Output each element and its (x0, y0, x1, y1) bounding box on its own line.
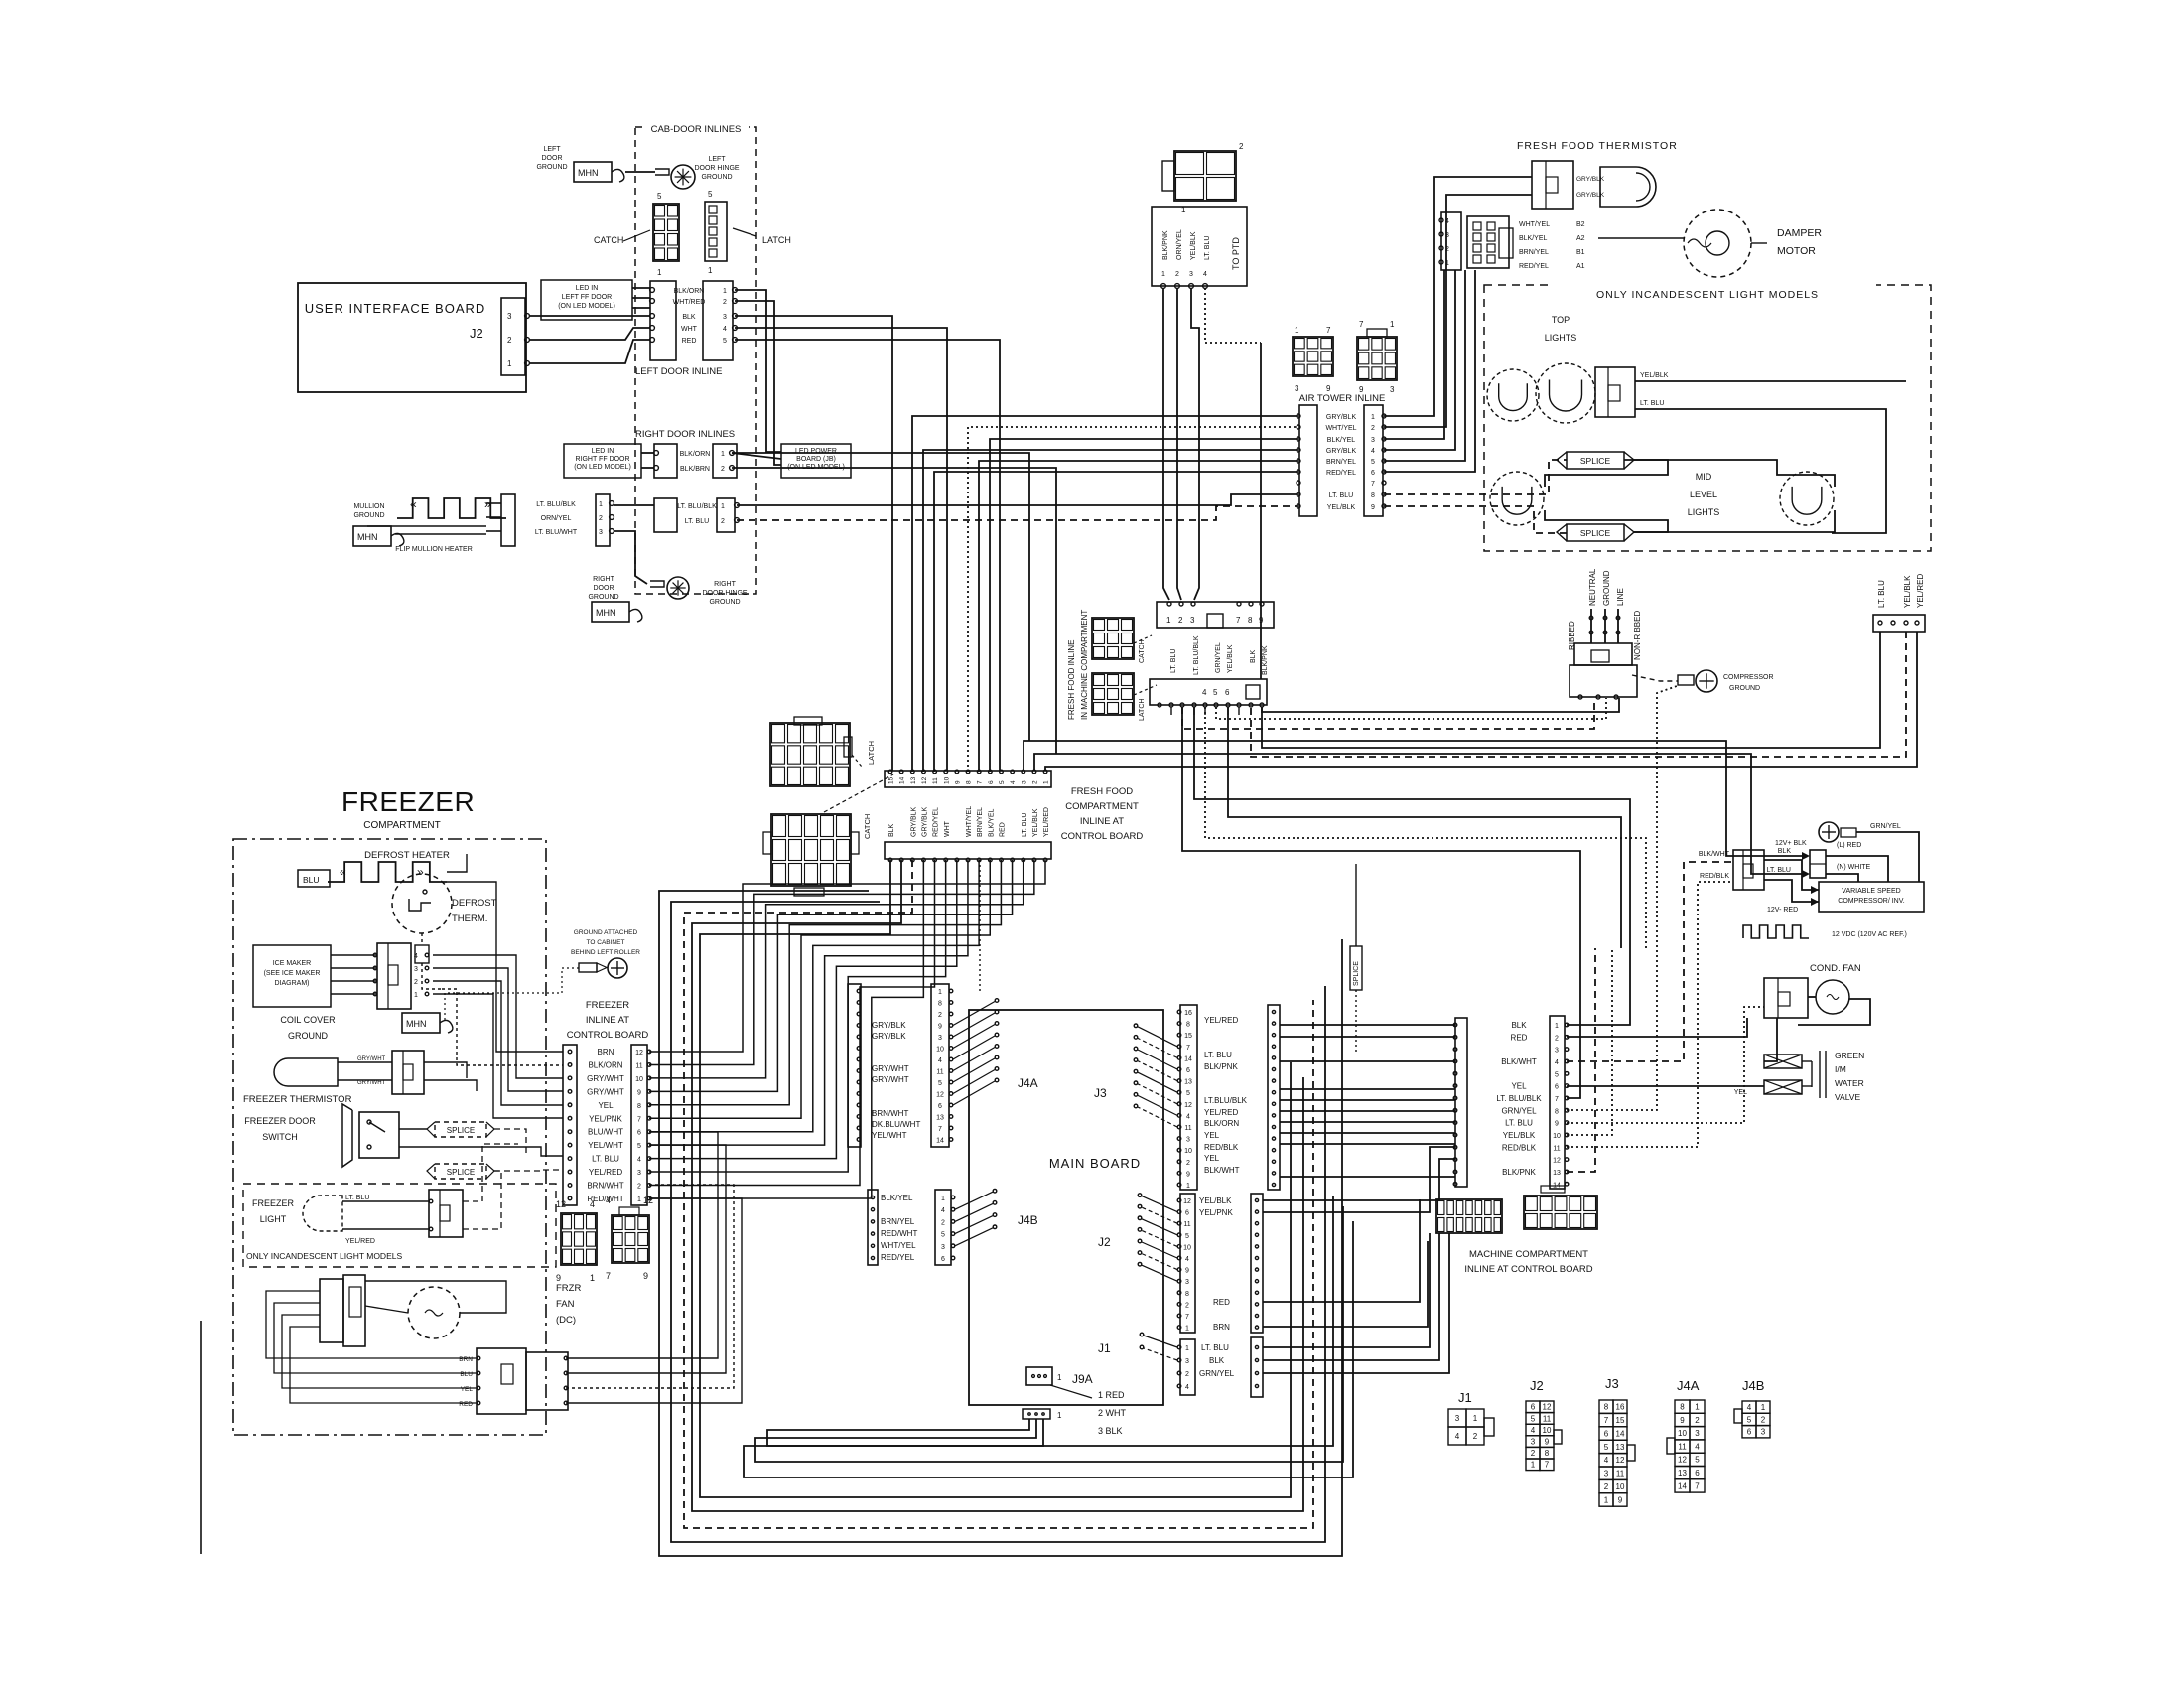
svg-text:12V+ BLK: 12V+ BLK (1775, 840, 1807, 847)
svg-text:LT. BLU: LT. BLU (345, 1195, 369, 1201)
svg-text:YEL/RED: YEL/RED (589, 1168, 622, 1177)
svg-text:VARIABLE SPEED: VARIABLE SPEED (1842, 888, 1900, 895)
connector J1 bar (1180, 1339, 1195, 1395)
svg-text:J4B: J4B (1018, 1213, 1038, 1227)
svg-text:3: 3 (1531, 1437, 1536, 1446)
wire blk to ptc (1024, 741, 1802, 856)
svg-text:9: 9 (1186, 1171, 1190, 1178)
air tower inline right bar (1364, 405, 1383, 516)
svg-text:4: 4 (637, 1157, 641, 1164)
only incandescent light models box (1484, 285, 1931, 551)
svg-text:2: 2 (1185, 1371, 1189, 1378)
svg-text:5: 5 (1555, 1071, 1559, 1078)
svg-text:2: 2 (1178, 616, 1183, 625)
svg-text:WHT/YEL: WHT/YEL (1325, 425, 1356, 432)
svg-text:12: 12 (1553, 1158, 1561, 1165)
svg-text:LEFT: LEFT (543, 146, 561, 153)
svg-text:SPLICE: SPLICE (447, 1168, 475, 1177)
svg-text:YEL: YEL (461, 1386, 474, 1393)
splice 2 freezer (435, 1164, 486, 1179)
svg-text:RED/BLK: RED/BLK (1700, 873, 1729, 880)
svg-text:7: 7 (637, 1116, 641, 1123)
svg-text:12: 12 (1616, 1456, 1625, 1465)
svg-text:LT. BLU/BLK: LT. BLU/BLK (1193, 635, 1200, 675)
svg-text:INLINE AT CONTROL BOARD: INLINE AT CONTROL BOARD (1464, 1264, 1592, 1275)
svg-text:RED: RED (1511, 1033, 1528, 1042)
svg-text:13: 13 (1616, 1443, 1625, 1452)
svg-text:9: 9 (1545, 1437, 1550, 1446)
svg-text:YEL/RED: YEL/RED (345, 1238, 375, 1245)
svg-text:YEL: YEL (1734, 1089, 1747, 1096)
svg-text:3: 3 (507, 312, 512, 321)
svg-text:BRN/YEL: BRN/YEL (881, 1217, 915, 1226)
svg-text:YEL/RED: YEL/RED (1043, 807, 1050, 837)
svg-text:8: 8 (1186, 1022, 1190, 1029)
svg-text:5: 5 (1186, 1090, 1190, 1097)
svg-text:7: 7 (1555, 1096, 1559, 1103)
svg-text:BLK/PNK: BLK/PNK (1502, 1168, 1536, 1177)
svg-text:J3: J3 (1605, 1376, 1619, 1391)
grn/yel ground screw (1819, 822, 1839, 842)
svg-text:12: 12 (936, 1092, 944, 1099)
machine compartment pin bar (1550, 1016, 1565, 1189)
svg-text:RED/YEL: RED/YEL (1326, 470, 1356, 477)
svg-text:ORN/YEL: ORN/YEL (1176, 229, 1183, 260)
J9A pigtail note (1050, 1385, 1092, 1398)
svg-text:14: 14 (1678, 1481, 1687, 1490)
svg-text:WHT/YEL: WHT/YEL (966, 806, 973, 837)
wire machine row13 dashed stub (1567, 948, 1595, 1172)
svg-text:MHN: MHN (596, 608, 616, 618)
top lights bulb 1 (1487, 369, 1539, 421)
svg-text:7: 7 (977, 780, 984, 784)
defrost thermostat (392, 874, 452, 933)
freezer compartment box (233, 839, 546, 1435)
connector to ptd 2x2 (1174, 151, 1236, 201)
svg-text:BLK/YEL: BLK/YEL (1327, 437, 1356, 444)
svg-text:FREEZER: FREEZER (252, 1198, 295, 1208)
svg-text:1 RED: 1 RED (1098, 1390, 1125, 1400)
svg-text:RED/BLK: RED/BLK (1204, 1143, 1239, 1152)
svg-text:NEUTRAL: NEUTRAL (1588, 568, 1597, 606)
svg-text:BRN/YEL: BRN/YEL (977, 807, 984, 837)
wires J2 to machine inline (1263, 1159, 1455, 1200)
nested wires D (659, 891, 1342, 1556)
svg-text:J2: J2 (1098, 1235, 1111, 1249)
right door inline connector (654, 444, 677, 478)
svg-text:GRN/YEL: GRN/YEL (1501, 1106, 1537, 1115)
svg-text:11: 11 (1543, 1414, 1552, 1423)
svg-text:LIGHTS: LIGHTS (1688, 507, 1720, 517)
ff inline at control board grid latch (770, 723, 850, 786)
machine compartment grid connector B (1524, 1196, 1597, 1229)
svg-text:BRN/WHT: BRN/WHT (587, 1182, 623, 1191)
svg-text:4: 4 (590, 1199, 595, 1209)
svg-text:GROUND: GROUND (701, 174, 732, 181)
svg-text:FRESH FOOD THERMISTOR: FRESH FOOD THERMISTOR (1517, 140, 1678, 152)
svg-text:CONTROL BOARD: CONTROL BOARD (1061, 831, 1144, 842)
svg-text:BLK/ORN: BLK/ORN (680, 451, 711, 458)
svg-text:10: 10 (1184, 1148, 1192, 1155)
svg-text:11: 11 (936, 1069, 943, 1076)
svg-text:WHT: WHT (944, 820, 951, 837)
svg-text:10: 10 (1616, 1482, 1625, 1491)
svg-text:LT.BLU/BLK: LT.BLU/BLK (1204, 1096, 1248, 1105)
svg-text:5: 5 (1604, 1443, 1609, 1452)
svg-text:DK.BLU/WHT: DK.BLU/WHT (872, 1120, 920, 1129)
svg-text:3: 3 (1186, 1137, 1190, 1144)
svg-text:1: 1 (590, 1273, 595, 1283)
wire air tower pin9 dashed to splice (1384, 506, 1567, 533)
svg-text:3: 3 (1021, 780, 1027, 784)
water valve coils (1764, 1055, 1802, 1068)
svg-text:(ON LED MODEL): (ON LED MODEL) (574, 464, 631, 471)
svg-text:7: 7 (1371, 481, 1375, 488)
svg-text:8: 8 (1545, 1449, 1550, 1458)
svg-text:MHN: MHN (357, 532, 378, 542)
svg-text:6: 6 (1185, 1210, 1189, 1217)
svg-text:INLINE AT: INLINE AT (1080, 816, 1124, 827)
svg-text:BRN/YEL: BRN/YEL (1519, 249, 1549, 256)
svg-text:INLINE AT: INLINE AT (586, 1015, 629, 1026)
svg-text:BLK/BRN: BLK/BRN (680, 466, 710, 473)
svg-text:FRESH FOOD: FRESH FOOD (1071, 786, 1133, 797)
svg-text:»: » (484, 497, 491, 511)
svg-text:6: 6 (938, 1103, 942, 1110)
svg-text:SPLICE: SPLICE (1353, 961, 1360, 986)
led in right ff door box (564, 444, 641, 478)
svg-text:COND. FAN: COND. FAN (1810, 963, 1861, 974)
svg-text:6: 6 (1695, 1469, 1700, 1477)
svg-text:1: 1 (414, 992, 418, 999)
svg-text:6: 6 (1225, 688, 1230, 697)
svg-text:1: 1 (657, 268, 662, 277)
svg-text:BLU: BLU (460, 1371, 473, 1378)
svg-text:MULLION: MULLION (353, 503, 384, 510)
svg-text:4: 4 (414, 953, 418, 960)
svg-text:RIGHT: RIGHT (593, 576, 615, 583)
svg-text:J3: J3 (1094, 1086, 1107, 1100)
svg-text:1: 1 (1473, 1414, 1478, 1423)
svg-text:12: 12 (1184, 1102, 1192, 1109)
svg-text:IN MACHINE COMPARTMENT: IN MACHINE COMPARTMENT (1080, 610, 1089, 720)
wire machine row2 to cond fan connector (1567, 1018, 1747, 1037)
svg-text:LED POWER: LED POWER (795, 448, 837, 455)
svg-text:9: 9 (1185, 1268, 1189, 1275)
nested wires C dashed (684, 860, 1313, 1528)
splice vertical (1350, 946, 1362, 990)
svg-text:4: 4 (1455, 1432, 1460, 1441)
svg-text:YEL/RED: YEL/RED (1204, 1108, 1238, 1117)
svg-text:THERM.: THERM. (452, 914, 487, 924)
svg-text:9: 9 (637, 1089, 641, 1096)
svg-text:2: 2 (941, 1219, 945, 1226)
svg-text:1: 1 (1761, 1403, 1766, 1412)
machine compartment grid connector A (1436, 1199, 1502, 1233)
svg-text:J4A: J4A (1677, 1378, 1700, 1393)
svg-text:BLK/WHT: BLK/WHT (1204, 1166, 1240, 1175)
J3 right bar (1268, 1005, 1280, 1190)
svg-text:YEL/BLK: YEL/BLK (1640, 372, 1669, 379)
wire lt.blu/blk long to air tower (737, 494, 1298, 505)
svg-text:RED: RED (1000, 822, 1007, 837)
freezer thermistor connector (392, 1051, 424, 1094)
damper motor pin bar (1441, 212, 1461, 270)
svg-text:YEL/BLK: YEL/BLK (1327, 504, 1356, 511)
svg-text:3: 3 (941, 1244, 945, 1251)
svg-text:COIL COVER: COIL COVER (280, 1015, 336, 1025)
freezer inline left bar (563, 1045, 577, 1205)
svg-text:GROUND: GROUND (1729, 685, 1760, 692)
svg-text:LT. BLU: LT. BLU (1767, 867, 1791, 874)
svg-text:4: 4 (1555, 1059, 1559, 1066)
svg-text:YEL/BLK: YEL/BLK (1199, 1196, 1232, 1205)
svg-text:2 WHT: 2 WHT (1098, 1408, 1127, 1418)
J2 right bar (1251, 1194, 1263, 1333)
wire air tower pin8 dashed to splice (1384, 460, 1567, 494)
svg-text:J4A: J4A (1018, 1076, 1038, 1090)
svg-text:4: 4 (1695, 1442, 1700, 1451)
svg-text:FREEZER THERMISTOR: FREEZER THERMISTOR (243, 1094, 352, 1105)
wire right door inline verticals (732, 453, 1029, 741)
svg-text:7: 7 (1545, 1461, 1550, 1470)
mullion heater terminal box (501, 494, 515, 546)
svg-text:14: 14 (1184, 1055, 1192, 1062)
svg-text:LEVEL: LEVEL (1690, 490, 1717, 499)
wire right door inline pins to led power board (732, 453, 781, 459)
svg-text:11: 11 (1183, 1221, 1190, 1228)
svg-text:DAMPER: DAMPER (1777, 227, 1822, 239)
svg-text:2: 2 (1175, 271, 1179, 278)
svg-text:I/M: I/M (1835, 1064, 1846, 1074)
svg-text:BRN/WHT: BRN/WHT (872, 1109, 908, 1118)
svg-text:5: 5 (1213, 688, 1218, 697)
svg-text:BLK/YEL: BLK/YEL (1519, 235, 1548, 242)
svg-text:DOOR: DOOR (594, 585, 614, 592)
svg-text:16: 16 (1616, 1403, 1625, 1412)
wire machine row9 dotted to cond fan (1567, 1007, 1764, 1123)
svg-text:7: 7 (1359, 320, 1364, 329)
nested wires ff inline to bottom and right A (700, 860, 1291, 1497)
svg-text:9: 9 (1680, 1416, 1685, 1425)
svg-text:RED: RED (1213, 1298, 1230, 1307)
svg-text:12: 12 (921, 776, 928, 784)
svg-text:1: 1 (708, 266, 713, 275)
svg-text:FREEZER: FREEZER (586, 1000, 629, 1011)
svg-text:ONLY INCANDESCENT LIGHT MODELS: ONLY INCANDESCENT LIGHT MODELS (1596, 289, 1819, 301)
svg-text:GROUND ATTACHED: GROUND ATTACHED (574, 929, 638, 936)
svg-text:5: 5 (708, 190, 713, 199)
svg-text:4: 4 (1185, 1256, 1189, 1263)
wire ff inline pin5 dotted loop (1205, 707, 1646, 948)
svg-text:6: 6 (1604, 1429, 1609, 1438)
svg-text:1: 1 (941, 1196, 945, 1202)
ff inline at control board grid catch (771, 814, 851, 886)
svg-text:LT. BLU: LT. BLU (1505, 1119, 1533, 1128)
svg-text:YEL/BLK: YEL/BLK (1032, 808, 1039, 837)
svg-text:GRY/BLK: GRY/BLK (1326, 414, 1357, 421)
cond fan connector (1764, 978, 1808, 1018)
svg-text:COMPARTMENT: COMPARTMENT (1065, 801, 1139, 812)
svg-text:1: 1 (721, 503, 725, 510)
svg-text:DIAGRAM): DIAGRAM) (275, 980, 310, 987)
svg-text:1: 1 (1445, 260, 1449, 267)
svg-text:3: 3 (1445, 232, 1449, 239)
svg-text:5: 5 (999, 780, 1006, 784)
svg-text:5: 5 (637, 1143, 641, 1150)
svg-text:3: 3 (1604, 1470, 1609, 1478)
svg-text:15: 15 (888, 776, 895, 784)
svg-text:1: 1 (599, 501, 603, 508)
svg-text:3: 3 (1185, 1358, 1189, 1365)
svg-text:MAIN BOARD: MAIN BOARD (1049, 1156, 1141, 1171)
svg-text:12: 12 (556, 1199, 566, 1209)
svg-text:1: 1 (1186, 1183, 1190, 1190)
svg-text:5: 5 (941, 1232, 945, 1239)
svg-text:BRN: BRN (459, 1356, 473, 1363)
svg-text:»: » (417, 865, 424, 879)
svg-text:2: 2 (1531, 1449, 1536, 1458)
wire to ptd pin1 down to ff inline (1163, 288, 1169, 600)
svg-text:6: 6 (1747, 1428, 1752, 1437)
wire left door pin4 long to ff inline (735, 328, 947, 771)
svg-text:4: 4 (1445, 218, 1449, 225)
connector J4B bar (935, 1190, 951, 1265)
svg-text:BEHIND LEFT ROLLER: BEHIND LEFT ROLLER (571, 949, 640, 956)
svg-text:DEFROST HEATER: DEFROST HEATER (364, 850, 450, 861)
svg-text:11: 11 (1678, 1442, 1687, 1451)
svg-text:RED/BLK: RED/BLK (1502, 1143, 1537, 1152)
svg-text:6: 6 (988, 780, 995, 784)
svg-text:LED IN: LED IN (592, 448, 614, 455)
svg-text:15: 15 (1184, 1033, 1192, 1040)
svg-text:4: 4 (1186, 1113, 1190, 1120)
svg-text:2: 2 (938, 1012, 942, 1019)
wire to ptd pin4 dotted down (1205, 288, 1261, 343)
svg-text:BLK/YEL: BLK/YEL (881, 1194, 913, 1202)
svg-text:MID: MID (1696, 472, 1712, 482)
connector J9A (1026, 1367, 1052, 1385)
svg-text:LT. BLU: LT. BLU (1170, 649, 1177, 673)
svg-text:YEL: YEL (598, 1101, 614, 1110)
svg-text:2: 2 (721, 466, 725, 473)
wire lt.blu drop (1262, 632, 1880, 748)
svg-text:YEL/RED: YEL/RED (1916, 574, 1925, 608)
power cord wires into block (1590, 609, 1592, 643)
J4B left bar (868, 1190, 878, 1265)
svg-text:YEL/BLK: YEL/BLK (1503, 1131, 1536, 1140)
svg-text:VALVE: VALVE (1835, 1092, 1860, 1102)
svg-text:6: 6 (1531, 1403, 1536, 1412)
svg-text:4: 4 (938, 1057, 942, 1064)
svg-text:J1: J1 (1458, 1390, 1472, 1405)
svg-text:7: 7 (606, 1271, 611, 1281)
wire ff inline pin4 loop (1228, 707, 1621, 948)
svg-text:GRY/BLK: GRY/BLK (1326, 448, 1357, 455)
svg-text:RED/YEL: RED/YEL (933, 807, 940, 837)
freezer inline pin bar (631, 1045, 647, 1205)
svg-text:5: 5 (1695, 1456, 1700, 1465)
svg-text:GRY/BLK: GRY/BLK (872, 1021, 906, 1030)
svg-text:12: 12 (1543, 1403, 1552, 1412)
svg-text:9: 9 (1555, 1121, 1559, 1128)
svg-text:LATCH: LATCH (762, 235, 791, 245)
connector below board (1023, 1409, 1050, 1419)
freezer inline grid connector B (612, 1215, 649, 1263)
ff machine compartment inline bottom bar (1150, 679, 1267, 705)
left door inline connector (650, 281, 676, 360)
svg-text:B2: B2 (1576, 221, 1585, 228)
svg-text:GROUND: GROUND (288, 1031, 328, 1041)
svg-text:ONLY INCANDESCENT LIGHT MODELS: ONLY INCANDESCENT LIGHT MODELS (246, 1251, 402, 1261)
cabinet ground screw (579, 963, 597, 972)
svg-text:10: 10 (943, 776, 950, 784)
svg-text:10: 10 (635, 1076, 643, 1083)
svg-text:DEFROST: DEFROST (452, 898, 497, 909)
wire mullion pin3 to right door ground (614, 531, 647, 584)
svg-text:BLK: BLK (1511, 1021, 1527, 1030)
svg-text:7: 7 (1185, 1314, 1189, 1321)
wire left door pin5 long to ff inline (735, 340, 1000, 771)
svg-text:12: 12 (1678, 1456, 1687, 1465)
svg-text:BLK/PNK: BLK/PNK (1162, 230, 1169, 260)
svg-text:9: 9 (1371, 504, 1375, 511)
svg-text:5: 5 (723, 338, 727, 345)
machine compartment inline left bar (1455, 1018, 1467, 1187)
svg-text:YEL/BLK: YEL/BLK (1190, 231, 1197, 260)
svg-text:LEFT DOOR INLINE: LEFT DOOR INLINE (635, 366, 722, 377)
compressor ground lug (1632, 675, 1678, 681)
latch connector (705, 202, 727, 261)
svg-text:BLU: BLU (303, 875, 320, 885)
svg-text:BLK/ORN: BLK/ORN (588, 1060, 622, 1069)
wire grn/yel to compressor (1856, 832, 1919, 882)
svg-text:RED/WHT: RED/WHT (881, 1229, 917, 1238)
svg-text:7: 7 (1326, 326, 1331, 335)
svg-text:4: 4 (1185, 1384, 1189, 1391)
svg-text:11: 11 (1184, 1125, 1191, 1132)
svg-text:1: 1 (1555, 1023, 1559, 1030)
freezer light wiring dashed (463, 1144, 518, 1201)
top lights connector (1595, 367, 1635, 417)
right door hinge ground lug (650, 581, 664, 587)
wire left door pin3 long to ff inline (735, 316, 892, 771)
svg-text:2: 2 (1185, 1302, 1189, 1309)
svg-text:8: 8 (966, 780, 973, 784)
svg-text:13: 13 (1553, 1170, 1561, 1177)
svg-text:5: 5 (1371, 459, 1375, 466)
svg-text:J2: J2 (1530, 1378, 1544, 1393)
svg-text:6: 6 (941, 1256, 945, 1263)
led power board box (781, 444, 851, 478)
svg-text:LATCH: LATCH (867, 741, 876, 765)
svg-text:SPLICE: SPLICE (1580, 528, 1611, 538)
svg-text:2: 2 (1371, 425, 1375, 432)
svg-text:5: 5 (1531, 1414, 1536, 1423)
svg-text:GREEN: GREEN (1835, 1051, 1864, 1060)
svg-text:8: 8 (938, 1001, 942, 1008)
svg-text:(N) WHITE: (N) WHITE (1837, 864, 1871, 871)
svg-text:RED/YEL: RED/YEL (1519, 263, 1549, 270)
compressor inverter connector (1733, 850, 1764, 890)
splice box 2 (1567, 524, 1624, 541)
svg-text:3 BLK: 3 BLK (1098, 1426, 1123, 1436)
freezer light box (243, 1184, 556, 1267)
svg-text:LT. BLU: LT. BLU (1201, 1343, 1229, 1352)
svg-text:BLK: BLK (682, 314, 696, 321)
frzr fan connector (320, 1279, 343, 1342)
svg-text:7: 7 (1186, 1045, 1190, 1052)
